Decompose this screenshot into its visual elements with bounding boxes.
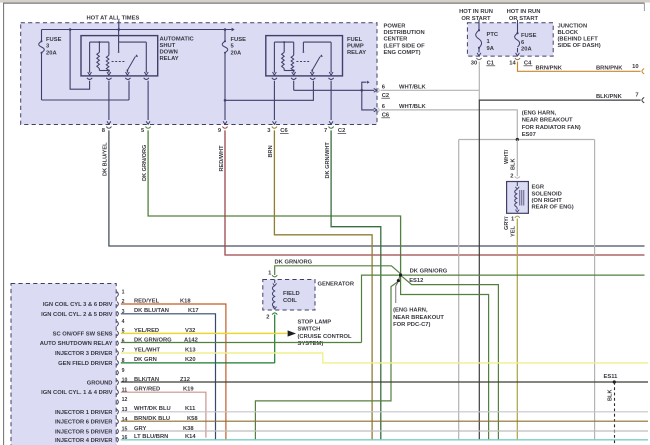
window frame left line [3, 3, 5, 445]
svg-text:IGN COIL CYL. 2 & 5 DRIV: IGN COIL CYL. 2 & 5 DRIV [41, 312, 113, 318]
node PCM pin 11 [117, 390, 119, 395]
wire DK GRN/ORG from PDC pin 5 [148, 130, 401, 273]
wire BRN/PNK from pin 14 [518, 62, 641, 72]
fuse F5 20A [224, 30, 226, 42]
wire ES12 branch down-right [401, 277, 489, 440]
splice ES11 [613, 380, 616, 383]
fuse F3 20A [41, 30, 43, 42]
automatic shut down relay switch common [118, 42, 120, 51]
svg-text:EGR: EGR [532, 185, 545, 191]
wire branch to C6 exit [362, 90, 374, 110]
svg-text:(CRUISE CONTROL: (CRUISE CONTROL [298, 334, 353, 340]
ES12 dot 2 [397, 279, 400, 282]
window frame right stub [643, 3, 645, 11]
power distribution center dashed box [21, 23, 377, 125]
wire DK GRN/ORG A142 [121, 342, 362, 344]
wire FP relay coil to C2 exit [293, 81, 295, 91]
node C6 pin 6 [378, 108, 380, 113]
svg-text:20A: 20A [231, 50, 242, 56]
svg-text:DK BLU/YEL: DK BLU/YEL [103, 142, 109, 176]
arrow branch continuation marker [362, 82, 367, 90]
svg-text:1: 1 [122, 289, 125, 295]
splice ES12 [399, 276, 400, 279]
wire LT BLU/BRN K14 [121, 439, 648, 441]
svg-text:STOP LAMP: STOP LAMP [298, 319, 332, 325]
wire WHT/BLK C2 [381, 89, 480, 91]
node junction block pin 14 C4 [515, 58, 520, 60]
svg-text:6: 6 [122, 338, 125, 344]
automatic shut down relay switch arm [127, 69, 129, 71]
wire YEL/WHT K13 [121, 353, 648, 363]
svg-text:FOR RADIATOR FAN): FOR RADIATOR FAN) [522, 125, 581, 131]
bus junction to ASD switch [118, 28, 121, 31]
svg-text:FUSE: FUSE [46, 37, 62, 43]
svg-text:BRN: BRN [268, 145, 274, 157]
svg-text:REAR OF ENG): REAR OF ENG) [532, 205, 574, 211]
wire DK GRN/ORG right run [402, 274, 644, 276]
svg-text:OR START: OR START [509, 16, 539, 22]
automatic shut down relay box [81, 36, 158, 76]
wire BLK/PNK [479, 100, 640, 440]
svg-text:(LEFT SIDE OF: (LEFT SIDE OF [384, 43, 426, 49]
svg-text:(ON RIGHT: (ON RIGHT [532, 198, 563, 204]
node PCM pin 7 [117, 351, 119, 356]
svg-text:(BEHIND LEFT: (BEHIND LEFT [558, 37, 599, 43]
wire WHT/DK BLU K11 [121, 411, 648, 413]
fuel pump relay coil winding 2 [293, 42, 295, 55]
node PCM pin 3 [117, 311, 119, 316]
svg-text:AUTOMATIC: AUTOMATIC [160, 36, 195, 42]
svg-text:SWITCH: SWITCH [298, 327, 321, 333]
node PCM pin 5 [117, 331, 119, 336]
wire WHT/BLK ES07 right arm down [594, 140, 596, 440]
fuel pump relay terminal brackets [272, 78, 277, 80]
wire RED/YEL K18 [121, 304, 226, 440]
node PCM pin 13 [117, 409, 119, 414]
ES12 dot 1 [399, 273, 402, 276]
svg-text:NEAR BREAKOUT: NEAR BREAKOUT [522, 118, 573, 124]
PCM connector dashed box [11, 284, 116, 445]
wire fuse3 to ASD relay arm [42, 99, 130, 101]
wire FP relay to PDC pin 7 [330, 81, 332, 120]
svg-text:HOT IN RUN: HOT IN RUN [459, 9, 493, 15]
wire RED/WHT from PDC pin 9 [225, 130, 645, 255]
node PCM pin 8 [117, 360, 119, 365]
wire ASD relay to PDC pin 8 [108, 81, 110, 120]
wire fuse5 to FP relay arm [225, 81, 313, 101]
svg-text:AUTO SHUTDOWN RELAY: AUTO SHUTDOWN RELAY [40, 341, 113, 347]
svg-text:WHT/BLK: WHT/BLK [399, 104, 427, 110]
node PDC pin 9 [222, 127, 227, 129]
wire DK GRN K20 [121, 362, 275, 364]
svg-text:BRN/PNK: BRN/PNK [596, 66, 623, 72]
svg-text:COIL: COIL [283, 298, 297, 304]
wire bus into automatic shut down relay [118, 30, 120, 43]
wire DK BLU/TAN K17 [121, 314, 216, 440]
svg-text:INJECTOR 5 DRIVER: INJECTOR 5 DRIVER [55, 429, 113, 435]
svg-text:(ENG HARN,: (ENG HARN, [393, 308, 428, 314]
svg-text:10: 10 [632, 64, 638, 70]
svg-text:20A: 20A [46, 50, 57, 56]
fuel pump relay box [266, 36, 343, 76]
svg-text:BLK: BLK [607, 390, 613, 402]
svg-text:20A: 20A [521, 47, 532, 53]
svg-text:FUEL: FUEL [347, 37, 363, 43]
wire DK GRN/ORG to field coil pin 1 [275, 266, 401, 275]
svg-text:DK GRN/ORG: DK GRN/ORG [275, 260, 313, 266]
svg-text:CENTER: CENTER [384, 37, 409, 43]
fuel pump relay coil winding [283, 42, 285, 52]
svg-text:BLOCK: BLOCK [558, 30, 579, 36]
svg-text:7: 7 [635, 93, 638, 99]
wire BRN/DK BLU K58 [121, 420, 648, 422]
wire WHT/BLK ES07 to EGR [516, 140, 518, 177]
svg-text:INJECTOR 4 DRIVER: INJECTOR 4 DRIVER [55, 438, 113, 444]
generator field coil dashed box [263, 280, 315, 311]
window frame top line [3, 2, 645, 4]
svg-text:DK GRN/ORG: DK GRN/ORG [142, 145, 148, 181]
node PCM pin 16 [117, 437, 119, 442]
node PDC pin 3 C6 [272, 127, 277, 129]
svg-text:FOR PDC-C7): FOR PDC-C7) [393, 322, 430, 328]
svg-text:HOT IN RUN: HOT IN RUN [507, 9, 541, 15]
svg-text:14: 14 [509, 61, 516, 67]
junction fuse5 / FP relay [224, 99, 227, 102]
EGR solenoid box [507, 182, 529, 214]
node PDC pin 5 [146, 127, 151, 129]
field coil pin 2 [272, 313, 277, 315]
svg-text:ES07: ES07 [522, 132, 536, 138]
bus arrowhead [232, 28, 235, 32]
node PCM pin 9 [117, 370, 119, 375]
svg-text:GENERATOR: GENERATOR [318, 282, 355, 288]
node PCM pin 4 [117, 321, 119, 326]
svg-text:INJECTOR 1 DRIVER: INJECTOR 1 DRIVER [55, 410, 113, 416]
svg-text:14: 14 [122, 417, 128, 423]
svg-text:WHT/BLK: WHT/BLK [399, 85, 427, 91]
fuel pump relay switch common [302, 42, 304, 51]
node PCM pin 1 [117, 292, 119, 297]
node HOT AT ALL TIMES bus [118, 20, 120, 29]
svg-text:OR START: OR START [461, 16, 491, 22]
bus junction to ASD coil [69, 28, 72, 31]
junction block dashed box [467, 23, 553, 56]
wire WHT/BLK ES07 left arm down [458, 140, 460, 440]
svg-text:SHUT: SHUT [160, 43, 176, 49]
svg-text:DISTRIBUTION: DISTRIBUTION [384, 30, 425, 36]
automatic shut down relay coil winding 2 [108, 42, 110, 55]
wire ES12 branch to bottom-left [255, 282, 397, 440]
svg-text:BLK/PNK: BLK/PNK [596, 94, 623, 100]
wire BLK/TAN Z12 to ES11 [121, 381, 648, 383]
svg-text:PUMP: PUMP [347, 43, 364, 49]
splice ES07 [459, 139, 595, 141]
PTC 1 9A [478, 20, 480, 30]
stop lamp switch arrow [288, 330, 296, 336]
svg-text:IGN COIL CYL 3 & 6 DRIV: IGN COIL CYL 3 & 6 DRIV [43, 302, 113, 308]
bus junction to fuse 5 [224, 28, 227, 31]
svg-text:GRY/: GRY/ [504, 216, 510, 230]
fuel pump relay coil feed wire [273, 42, 275, 73]
svg-text:(ENG HARN,: (ENG HARN, [522, 111, 557, 117]
svg-text:2: 2 [510, 174, 513, 180]
svg-text:HOT AT ALL TIMES: HOT AT ALL TIMES [87, 16, 140, 22]
svg-text:4: 4 [122, 319, 125, 325]
automatic shut down relay coil feed wire [89, 42, 91, 73]
EGR pin 2 bracket [515, 176, 520, 178]
automatic shut down relay terminal brackets [87, 78, 92, 80]
wire DK BLU/YEL from PDC pin 8 [109, 130, 645, 246]
wire GRY/YEL from EGR pin 1 [516, 219, 518, 440]
svg-text:2: 2 [266, 315, 269, 321]
svg-text:7: 7 [324, 128, 327, 134]
wire BRN from PDC pin 3 [274, 130, 372, 439]
svg-text:WHT/: WHT/ [504, 149, 510, 164]
svg-text:RED/WHT: RED/WHT [219, 145, 225, 172]
wire ASD coil to bus [70, 30, 90, 90]
svg-text:GEN FIELD DRIVER: GEN FIELD DRIVER [58, 361, 113, 367]
node PDC pin 7 C2 [329, 127, 334, 129]
wire GRY/RED K19 [121, 392, 206, 437]
svg-text:DK GRN/ORG: DK GRN/ORG [410, 269, 448, 275]
node PCM pin 2 [117, 302, 119, 307]
svg-text:FUSE: FUSE [521, 33, 537, 39]
pointer line to ES12 note [396, 283, 398, 303]
node C2 pin 6 [378, 88, 380, 93]
field coil winding [274, 280, 276, 284]
wire WHT/BLK C6 to ES07 [381, 110, 518, 140]
svg-text:FIELD: FIELD [283, 291, 300, 297]
junction C2/C6 branch [361, 89, 364, 92]
node PCM pin 10 [117, 380, 119, 385]
svg-text:JUNCTION: JUNCTION [558, 23, 588, 29]
node PCM pin 12 [117, 400, 119, 405]
svg-text:SIDE OF DASH): SIDE OF DASH) [558, 43, 601, 49]
svg-text:DOWN: DOWN [160, 50, 178, 56]
svg-text:FUSE: FUSE [231, 37, 247, 43]
svg-text:PTC: PTC [487, 32, 499, 38]
fuse F6 20A [517, 20, 519, 33]
window chrome top band [0, 0, 650, 3]
wire WHT/BLK from pin 30 down [478, 62, 480, 101]
svg-text:9A: 9A [487, 46, 495, 52]
wire FP relay to PDC pin 3 [273, 81, 275, 120]
wire DK GRN/WHT from PDC pin 7 [331, 130, 381, 439]
node junction block pin 30 C1 [476, 58, 481, 60]
svg-text:INJECTOR 3 DRIVER: INJECTOR 3 DRIVER [55, 351, 113, 357]
EGR pin 1 bracket [515, 216, 520, 218]
svg-text:12: 12 [122, 397, 128, 403]
wire YEL/RED V32 to stop lamp switch [121, 332, 287, 334]
svg-text:IGN COIL CYL. 1 & 4 DRIV: IGN COIL CYL. 1 & 4 DRIV [41, 390, 113, 396]
node PDC pin 8 [106, 127, 111, 129]
node PCM pin 15 [117, 429, 119, 434]
wire ASD relay to PDC pin 5 [147, 81, 149, 120]
svg-text:POWER: POWER [384, 23, 407, 29]
svg-text:BLK: BLK [511, 159, 517, 171]
svg-text:ENG COMPT): ENG COMPT) [384, 50, 421, 56]
svg-text:YEL: YEL [511, 226, 517, 237]
wire BLK dashed from ES11 [614, 382, 616, 445]
svg-text:SOLENOID: SOLENOID [532, 191, 562, 197]
svg-text:30: 30 [471, 61, 477, 67]
svg-text:BRN/PNK: BRN/PNK [536, 66, 563, 72]
svg-text:SC ON/OFF SW SENS: SC ON/OFF SW SENS [53, 331, 113, 337]
wire DK GRN/ORG A142 riser [362, 275, 399, 342]
svg-text:9: 9 [122, 368, 125, 374]
node PCM pin 14 [117, 419, 119, 424]
automatic shut down relay actuator linkage (dashed) [112, 61, 125, 63]
wire DK GRN field coil pin 2 down [274, 315, 276, 363]
svg-text:INJECTOR 6 DRIVER: INJECTOR 6 DRIVER [55, 420, 113, 426]
svg-text:GROUND: GROUND [87, 380, 113, 386]
field coil pin 1 [272, 275, 277, 277]
svg-text:ES11: ES11 [604, 374, 619, 380]
svg-text:ES12: ES12 [409, 278, 423, 284]
node PCM pin 6 [117, 341, 119, 346]
svg-text:RELAY: RELAY [160, 56, 179, 62]
automatic shut down relay coil winding [98, 42, 100, 52]
svg-text:RELAY: RELAY [347, 50, 366, 56]
wire ES12 branch se1 [402, 276, 498, 439]
fuel pump relay actuator linkage (dashed) [296, 61, 309, 63]
wire GRY K38 [121, 430, 648, 432]
EGR coil [516, 182, 518, 187]
svg-text:NEAR BREAKOUT: NEAR BREAKOUT [393, 315, 444, 321]
fuel pump relay switch arm [311, 69, 313, 71]
svg-text:DK GRN/WHT: DK GRN/WHT [325, 142, 331, 179]
svg-text:10: 10 [122, 378, 128, 384]
svg-text:15: 15 [122, 427, 128, 433]
